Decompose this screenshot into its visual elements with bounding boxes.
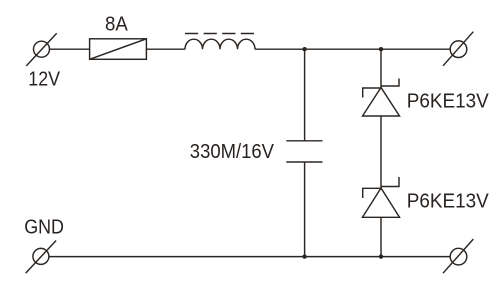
terminal 12V (top-left connector) — [26, 33, 56, 66]
diode D1 P6KE13V (TVS) — [363, 79, 400, 117]
junction: top of diode branch — [379, 47, 383, 51]
diode D2 P6KE13V (TVS) — [363, 177, 400, 217]
svg-text:330M/16V: 330M/16V — [190, 141, 275, 163]
terminal top-right connector — [443, 32, 473, 66]
wire: top rail down to diode D1 — [380, 49, 382, 87]
capacitor C1 330M/16V — [286, 141, 322, 162]
wire: inductor to top-right terminal (top rail) — [255, 48, 450, 50]
svg-text:GND: GND — [24, 216, 64, 238]
terminal bottom-right connector — [443, 239, 473, 273]
svg-text:P6KE13V: P6KE13V — [407, 191, 490, 213]
wire: D1 to D2 — [380, 116, 382, 188]
wire: D2 to bottom rail — [380, 217, 382, 256]
wire: capacitor to bottom rail — [304, 162, 306, 257]
terminal GND (bottom-left connector) — [26, 241, 56, 274]
svg-text:8A: 8A — [105, 13, 128, 35]
wire: 12V terminal to fuse — [50, 48, 90, 50]
wire: fuse to inductor — [146, 48, 185, 50]
wire: bottom rail GND to bottom-right terminal — [49, 256, 450, 258]
svg-text:P6KE13V: P6KE13V — [407, 90, 490, 112]
svg-text:12V: 12V — [28, 68, 60, 90]
fuse F1 8A — [90, 39, 147, 60]
junction: bottom of diode branch — [379, 254, 383, 258]
wire: top rail down to capacitor — [304, 49, 306, 141]
junction: bottom of capacitor branch — [302, 254, 306, 258]
inductor L1 (with dashed core line) — [185, 34, 255, 50]
junction: top of capacitor branch — [302, 47, 306, 51]
